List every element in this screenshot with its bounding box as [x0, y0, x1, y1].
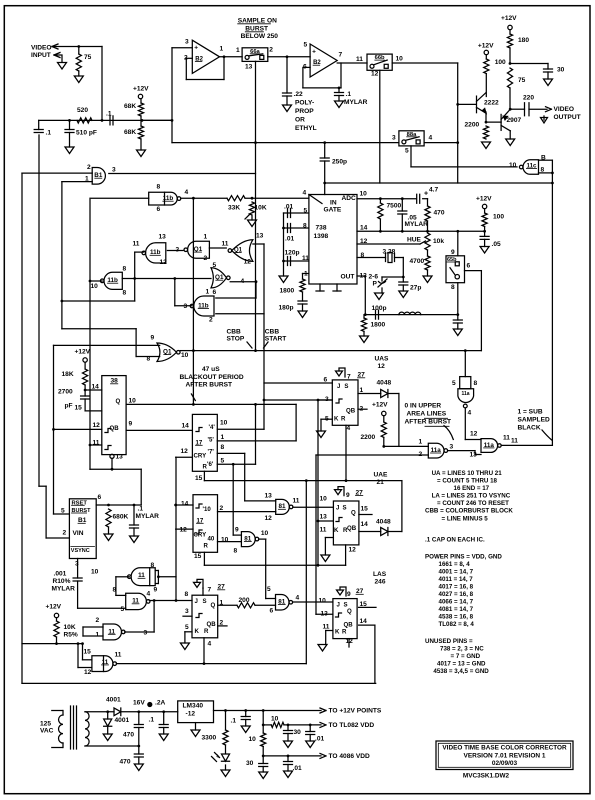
- svg-text:.22: .22: [294, 91, 303, 98]
- svg-text:10: 10: [91, 283, 99, 290]
- svg-text:MYLAR: MYLAR: [52, 586, 76, 593]
- svg-text:470: 470: [434, 210, 445, 217]
- svg-text:OUTPUT: OUTPUT: [554, 114, 581, 121]
- svg-text:STOP: STOP: [227, 336, 245, 343]
- svg-text:6: 6: [213, 289, 217, 296]
- svg-text:3: 3: [450, 444, 454, 451]
- svg-text:VERSION 7.01 REVISION 1: VERSION 7.01 REVISION 1: [463, 752, 545, 759]
- svg-text:= COUNT 246 TO RESET: = COUNT 246 TO RESET: [437, 500, 509, 507]
- svg-text:21: 21: [377, 479, 385, 486]
- svg-text:10: 10: [181, 352, 189, 359]
- svg-text:6: 6: [157, 206, 161, 213]
- svg-text:1800: 1800: [371, 322, 386, 329]
- svg-text:180: 180: [518, 37, 529, 44]
- svg-text:R: R: [341, 415, 346, 422]
- svg-text:125: 125: [40, 721, 51, 728]
- svg-text:10k: 10k: [433, 238, 444, 245]
- svg-text:K: K: [195, 628, 200, 635]
- svg-text:14: 14: [361, 521, 369, 528]
- svg-text:4: 4: [147, 590, 151, 597]
- svg-text:+: +: [424, 191, 428, 198]
- svg-text:13: 13: [256, 233, 264, 240]
- svg-text:R5%: R5%: [64, 632, 78, 639]
- svg-text:R10%: R10%: [53, 578, 71, 585]
- svg-text:+12V: +12V: [501, 15, 517, 22]
- svg-text:.01: .01: [293, 765, 302, 772]
- svg-text:pF: pF: [65, 403, 73, 410]
- svg-text:PROP: PROP: [295, 108, 314, 115]
- svg-text:POLY-: POLY-: [295, 100, 314, 107]
- svg-text:3: 3: [184, 303, 188, 310]
- svg-text:MYLAR: MYLAR: [344, 99, 368, 106]
- svg-text:13: 13: [265, 493, 273, 500]
- svg-text:14: 14: [92, 384, 100, 391]
- svg-text:3: 3: [185, 608, 189, 615]
- svg-text:IN: IN: [330, 200, 337, 207]
- svg-text:VIDEO: VIDEO: [31, 45, 52, 52]
- svg-text:3: 3: [112, 167, 116, 174]
- svg-text:4538 = 3,4,5 = GND: 4538 = 3,4,5 = GND: [433, 668, 489, 675]
- svg-text:HUE: HUE: [407, 237, 422, 244]
- svg-text:11: 11: [323, 624, 330, 631]
- svg-text:R: R: [203, 463, 208, 470]
- svg-text:12: 12: [160, 259, 168, 266]
- svg-text:12: 12: [84, 669, 92, 676]
- svg-text:7: 7: [339, 52, 343, 59]
- svg-text:.05: .05: [492, 241, 501, 248]
- svg-text:8: 8: [185, 591, 189, 598]
- svg-text:R: R: [204, 542, 209, 549]
- svg-text:'6': '6': [207, 461, 214, 468]
- svg-text:14: 14: [181, 501, 189, 508]
- svg-text:2907: 2907: [507, 117, 522, 124]
- svg-text:Q: Q: [347, 608, 352, 615]
- svg-text:5: 5: [221, 457, 225, 464]
- svg-text:+: +: [194, 45, 198, 52]
- svg-text:520: 520: [77, 107, 88, 114]
- svg-text:100: 100: [493, 214, 504, 221]
- svg-text:.1 CAP ON EACH IC.: .1 CAP ON EACH IC.: [425, 536, 485, 543]
- svg-text:.1: .1: [149, 717, 155, 724]
- svg-text:QB: QB: [207, 621, 217, 628]
- svg-text:2: 2: [269, 47, 273, 54]
- svg-text:BLACKOUT PERIOD: BLACKOUT PERIOD: [180, 374, 244, 381]
- svg-text:9: 9: [154, 587, 158, 594]
- svg-text:+12V: +12V: [133, 86, 149, 93]
- svg-text:13: 13: [116, 454, 124, 461]
- svg-text:12: 12: [93, 422, 101, 429]
- svg-text:2: 2: [87, 164, 91, 171]
- svg-text:8: 8: [151, 562, 155, 569]
- svg-text:'7': '7': [208, 449, 215, 456]
- svg-text:13: 13: [159, 234, 167, 241]
- svg-text:15: 15: [84, 648, 92, 655]
- svg-text:+12V: +12V: [46, 604, 62, 611]
- svg-text:4001: 4001: [115, 717, 130, 724]
- svg-text:J: J: [337, 601, 340, 608]
- svg-text:15: 15: [75, 405, 83, 412]
- svg-text:1: 1: [204, 234, 208, 241]
- svg-text:TO +12V POINTS: TO +12V POINTS: [329, 708, 382, 715]
- svg-text:8: 8: [157, 184, 161, 191]
- svg-text:3: 3: [392, 135, 396, 142]
- svg-text:5: 5: [304, 42, 308, 49]
- svg-text:4700: 4700: [410, 258, 425, 265]
- svg-text:4: 4: [468, 410, 472, 417]
- svg-text:.1: .1: [106, 111, 112, 118]
- svg-text:510 pF: 510 pF: [76, 130, 97, 137]
- svg-text:3.38: 3.38: [383, 249, 396, 256]
- svg-text:7500: 7500: [387, 203, 402, 210]
- svg-text:UNUSED PINS =: UNUSED PINS =: [425, 638, 473, 645]
- svg-text:3: 3: [144, 630, 148, 637]
- svg-text:+12V: +12V: [476, 196, 492, 203]
- svg-text:8: 8: [123, 266, 127, 273]
- svg-text:1800: 1800: [280, 288, 295, 295]
- svg-text:'10: '10: [203, 506, 212, 513]
- svg-text:4001 = 14, 7: 4001 = 14, 7: [439, 568, 474, 575]
- svg-text:0 IN UPPER: 0 IN UPPER: [405, 403, 442, 410]
- svg-text:14: 14: [360, 618, 368, 625]
- svg-text:MVC3SK1.DW2: MVC3SK1.DW2: [463, 773, 510, 780]
- svg-text:VIDEO: VIDEO: [554, 106, 575, 113]
- svg-text:5: 5: [121, 606, 125, 613]
- svg-text:1661 = 8, 4: 1661 = 8, 4: [439, 561, 471, 568]
- svg-text:1: 1: [96, 632, 100, 639]
- svg-text:5: 5: [267, 586, 271, 593]
- svg-text:UA = LINES 10 THRU 21: UA = LINES 10 THRU 21: [432, 470, 503, 477]
- svg-text:VAC: VAC: [40, 728, 54, 735]
- svg-text:VIDEO TIME BASE COLOR CORRECTO: VIDEO TIME BASE COLOR CORRECTOR: [442, 745, 567, 752]
- svg-text:.1: .1: [346, 91, 352, 98]
- svg-text:9: 9: [451, 249, 455, 256]
- svg-text:12: 12: [180, 527, 188, 534]
- svg-text:30: 30: [557, 67, 565, 74]
- svg-text:5: 5: [405, 148, 409, 155]
- svg-text:11: 11: [320, 526, 327, 533]
- svg-text:12: 12: [181, 448, 189, 455]
- svg-text:9: 9: [347, 591, 351, 598]
- svg-text:10: 10: [509, 162, 517, 169]
- svg-text:CBB: CBB: [265, 329, 280, 336]
- svg-text:UAE: UAE: [374, 472, 389, 479]
- svg-text:CRY: CRY: [194, 452, 207, 459]
- svg-text:K: K: [334, 415, 339, 422]
- svg-text:3: 3: [185, 39, 189, 46]
- svg-text:15: 15: [194, 553, 202, 560]
- svg-text:5: 5: [213, 262, 217, 269]
- svg-text:UAS: UAS: [375, 356, 390, 363]
- svg-text:.1: .1: [231, 718, 237, 725]
- svg-text:1: 1: [236, 47, 240, 54]
- svg-text:120p: 120p: [285, 250, 300, 257]
- svg-text:10: 10: [319, 598, 327, 605]
- svg-text:680K: 680K: [113, 514, 129, 521]
- svg-text:738 = 2, 3 = NC: 738 = 2, 3 = NC: [440, 645, 484, 652]
- svg-text:10: 10: [129, 398, 137, 405]
- svg-text:Q: Q: [211, 602, 216, 609]
- svg-text:.2A: .2A: [155, 700, 165, 707]
- svg-text:.1: .1: [46, 130, 52, 137]
- svg-text:+12V: +12V: [478, 43, 494, 50]
- svg-text:11: 11: [356, 56, 363, 63]
- svg-text:8: 8: [147, 356, 151, 363]
- svg-text:ETHYL: ETHYL: [295, 125, 317, 132]
- svg-text:4048: 4048: [376, 519, 391, 526]
- svg-text:1398: 1398: [314, 233, 329, 240]
- svg-text:2: 2: [96, 617, 100, 624]
- svg-text:5: 5: [185, 624, 189, 631]
- svg-text:2: 2: [63, 530, 67, 537]
- svg-text:J: J: [337, 383, 340, 390]
- svg-text:2700: 2700: [58, 389, 73, 396]
- svg-text:VSYNC: VSYNC: [71, 548, 90, 554]
- svg-text:1: 1: [221, 434, 225, 441]
- svg-text:68K: 68K: [124, 129, 136, 136]
- svg-text:LM340: LM340: [183, 703, 204, 710]
- svg-text:2200: 2200: [361, 434, 376, 441]
- svg-text:.01: .01: [284, 204, 293, 211]
- svg-text:10: 10: [320, 496, 328, 503]
- svg-text:S: S: [203, 598, 207, 605]
- svg-text:= COUNT 5 THRU 18: = COUNT 5 THRU 18: [437, 477, 498, 484]
- svg-text:BLACK: BLACK: [518, 425, 541, 432]
- svg-text:4017 = 13 = GND: 4017 = 13 = GND: [437, 660, 486, 667]
- svg-text:AFTER BURST: AFTER BURST: [405, 419, 452, 426]
- svg-text:K: K: [335, 628, 340, 635]
- svg-text:12: 12: [378, 363, 386, 370]
- svg-text:LA = LINES 251 TO VSYNC: LA = LINES 251 TO VSYNC: [432, 492, 511, 499]
- svg-text:2: 2: [419, 451, 423, 458]
- svg-text:.1: .1: [138, 506, 144, 513]
- svg-text:3300: 3300: [202, 735, 217, 742]
- svg-text:9: 9: [129, 421, 133, 428]
- svg-text:30: 30: [294, 729, 302, 736]
- svg-text:13: 13: [320, 513, 328, 520]
- svg-text:R: R: [204, 628, 209, 635]
- svg-text:11: 11: [133, 241, 140, 248]
- svg-text:AREA LINES: AREA LINES: [407, 411, 447, 418]
- svg-text:4.7: 4.7: [429, 187, 438, 194]
- svg-text:.01: .01: [285, 236, 294, 243]
- svg-text:2-6: 2-6: [369, 274, 379, 281]
- svg-text:200: 200: [239, 597, 250, 604]
- svg-text:.001: .001: [54, 571, 67, 578]
- svg-text:220: 220: [523, 95, 534, 102]
- svg-text:QB: QB: [347, 525, 357, 532]
- svg-text:180p: 180p: [279, 305, 294, 312]
- svg-text:1 = SUB: 1 = SUB: [518, 409, 543, 416]
- svg-text:30: 30: [246, 760, 254, 767]
- svg-text:P: P: [373, 281, 378, 288]
- svg-text:100p: 100p: [372, 305, 387, 312]
- svg-text:11: 11: [222, 241, 229, 248]
- svg-text:14: 14: [182, 423, 190, 430]
- svg-text:1: 1: [220, 46, 224, 53]
- svg-text:10: 10: [221, 536, 229, 543]
- svg-text:6: 6: [467, 263, 471, 270]
- svg-text:8: 8: [451, 284, 455, 291]
- svg-text:4: 4: [429, 135, 433, 142]
- svg-text:= LINE MINUS 5: = LINE MINUS 5: [442, 515, 489, 522]
- svg-text:4066 = 14, 7: 4066 = 14, 7: [439, 598, 474, 605]
- svg-text:QB: QB: [346, 407, 356, 414]
- svg-text:4001: 4001: [106, 697, 121, 704]
- svg-text:BELOW 250: BELOW 250: [241, 33, 279, 40]
- svg-text:S: S: [344, 383, 348, 390]
- svg-text:12: 12: [371, 71, 379, 78]
- svg-text:10: 10: [271, 716, 279, 723]
- svg-text:33K: 33K: [228, 205, 240, 212]
- svg-text:2200: 2200: [465, 122, 480, 129]
- svg-text:47 uS: 47 uS: [202, 366, 220, 373]
- svg-text:'5': '5': [208, 437, 215, 444]
- svg-text:6: 6: [270, 607, 274, 614]
- svg-text:8: 8: [113, 586, 117, 593]
- svg-text:9: 9: [346, 492, 350, 499]
- svg-text:-12: -12: [186, 711, 196, 718]
- svg-text:14: 14: [360, 225, 368, 232]
- svg-text:9: 9: [151, 335, 155, 342]
- svg-text:10K: 10K: [255, 205, 267, 212]
- svg-text:4: 4: [303, 190, 307, 197]
- svg-text:13: 13: [245, 64, 253, 71]
- svg-text:2222: 2222: [484, 100, 499, 107]
- svg-text:+12V: +12V: [75, 349, 91, 356]
- svg-text:12: 12: [349, 546, 357, 553]
- svg-text:11a: 11a: [462, 391, 470, 397]
- svg-text:R: R: [343, 527, 348, 534]
- svg-text:02/09/03: 02/09/03: [492, 760, 518, 767]
- svg-text:16 END = 17: 16 END = 17: [454, 485, 490, 492]
- svg-text:2: 2: [204, 255, 208, 262]
- svg-text:100: 100: [495, 59, 506, 66]
- svg-text:R: R: [342, 628, 347, 635]
- svg-text:11: 11: [511, 438, 518, 445]
- svg-text:10: 10: [249, 736, 257, 743]
- svg-text:J: J: [195, 598, 198, 605]
- svg-text:12: 12: [244, 259, 252, 266]
- svg-text:CRY: CRY: [194, 531, 207, 538]
- svg-text:+: +: [312, 48, 316, 55]
- svg-text:470: 470: [120, 759, 131, 766]
- svg-text:K: K: [334, 527, 339, 534]
- svg-text:4048: 4048: [377, 380, 392, 387]
- svg-text:6: 6: [98, 494, 102, 501]
- svg-text:4017 = 16, 8: 4017 = 16, 8: [439, 583, 474, 590]
- svg-text:4027 = 16, 8: 4027 = 16, 8: [439, 591, 474, 598]
- svg-text:OUT: OUT: [341, 274, 355, 281]
- svg-text:4538 = 16, 8: 4538 = 16, 8: [439, 613, 474, 620]
- svg-text:9: 9: [235, 527, 239, 534]
- svg-text:470: 470: [123, 732, 134, 739]
- svg-text:Q: Q: [351, 510, 356, 517]
- svg-text:.01: .01: [315, 736, 324, 743]
- svg-text:4081 = 14, 7: 4081 = 14, 7: [439, 606, 474, 613]
- svg-text:VIN: VIN: [73, 530, 84, 537]
- svg-text:10: 10: [261, 530, 269, 537]
- svg-text:250p: 250p: [332, 159, 347, 166]
- svg-text:8: 8: [474, 380, 478, 387]
- svg-text:10: 10: [360, 191, 368, 198]
- svg-text:TL082 = 8, 4: TL082 = 8, 4: [439, 621, 475, 628]
- svg-text:QB: QB: [344, 621, 354, 628]
- svg-text:10: 10: [220, 420, 228, 427]
- svg-text:68K: 68K: [124, 103, 136, 110]
- svg-text:246: 246: [375, 579, 386, 586]
- svg-text:4011 = 14, 7: 4011 = 14, 7: [439, 576, 474, 583]
- svg-text:27p: 27p: [410, 285, 421, 292]
- svg-text:TO TL082 VDD: TO TL082 VDD: [329, 722, 375, 729]
- svg-text:TO 4086 VDD: TO 4086 VDD: [329, 753, 371, 760]
- svg-text:8: 8: [221, 444, 225, 451]
- svg-text:75: 75: [518, 77, 526, 84]
- svg-text:INPUT: INPUT: [31, 52, 51, 59]
- svg-text:2: 2: [209, 317, 213, 324]
- svg-text:738: 738: [316, 225, 327, 232]
- svg-text:= 7 = GND: = 7 = GND: [451, 653, 481, 660]
- svg-text:+12V: +12V: [372, 402, 388, 409]
- svg-text:11: 11: [503, 435, 510, 442]
- svg-text:12: 12: [265, 515, 273, 522]
- svg-text:16V: 16V: [133, 700, 145, 707]
- svg-text:15: 15: [195, 475, 203, 482]
- svg-text:7: 7: [208, 587, 212, 594]
- svg-text:S: S: [343, 505, 347, 512]
- svg-text:11: 11: [293, 498, 300, 505]
- svg-text:CBB = COLORBURST BLOCK: CBB = COLORBURST BLOCK: [425, 507, 513, 514]
- svg-text:8: 8: [123, 290, 127, 297]
- svg-text:POWER PINS = VDD, GND: POWER PINS = VDD, GND: [425, 553, 502, 560]
- svg-text:4: 4: [185, 189, 189, 196]
- svg-text:10K: 10K: [64, 624, 76, 631]
- svg-text:J: J: [336, 505, 339, 512]
- svg-text:5: 5: [452, 380, 456, 387]
- svg-text:7: 7: [347, 374, 351, 381]
- svg-text:18K: 18K: [62, 371, 74, 378]
- svg-text:12: 12: [470, 431, 478, 438]
- svg-text:15: 15: [361, 505, 369, 512]
- svg-text:4: 4: [347, 425, 351, 432]
- svg-text:MYLAR: MYLAR: [405, 221, 429, 228]
- svg-text:OR: OR: [295, 117, 305, 124]
- svg-text:'4': '4': [209, 424, 216, 431]
- svg-text:AFTER BURST: AFTER BURST: [186, 382, 233, 389]
- svg-text:75: 75: [84, 54, 92, 61]
- svg-text:CBB: CBB: [227, 329, 242, 336]
- svg-text:40: 40: [208, 535, 215, 542]
- svg-text:10: 10: [396, 56, 404, 63]
- svg-text:8: 8: [234, 548, 238, 555]
- svg-text:1: 1: [206, 289, 210, 296]
- svg-text:10: 10: [91, 569, 99, 576]
- svg-text:4: 4: [208, 640, 212, 647]
- svg-text:Q: Q: [116, 398, 121, 405]
- svg-text:LAS: LAS: [373, 571, 387, 578]
- svg-text:1: 1: [419, 438, 423, 445]
- svg-text:4: 4: [296, 594, 300, 601]
- svg-text:MYLAR: MYLAR: [136, 513, 160, 520]
- svg-text:ADC: ADC: [342, 195, 357, 202]
- svg-text:SAMPLED: SAMPLED: [518, 417, 550, 424]
- svg-text:GATE: GATE: [324, 207, 342, 214]
- svg-text:11: 11: [115, 651, 122, 658]
